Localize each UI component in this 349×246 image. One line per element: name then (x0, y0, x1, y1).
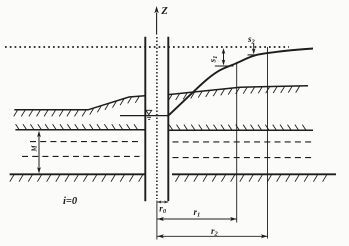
well casing right wall (167, 37, 169, 201)
water table symbol under-ticks (147, 117, 151, 119)
hatch ticks above aquifer top, left (16, 124, 138, 129)
r2 extension line (267, 47, 269, 239)
s1 arrowhead up (222, 48, 226, 54)
flow line (upper dashed) (30, 141, 313, 143)
s1 dimension line (223, 52, 225, 63)
well centerline (vertical dotted) (156, 37, 158, 199)
impermeable base line (10, 173, 336, 175)
water table symbol (nabla) in well (146, 110, 152, 114)
r1 extension line (236, 62, 238, 223)
M dimension arrowhead down (37, 167, 41, 174)
ground surface left of well (14, 96, 145, 110)
r1 dimension line (157, 218, 237, 220)
water level line in well (120, 115, 168, 117)
hatch ticks under left ground surface (14, 97, 139, 117)
r1 arrowhead left (157, 217, 164, 221)
hatch ticks above aquifer top, right (169, 125, 306, 130)
svg-text:Z: Z (160, 6, 168, 17)
initial piezometric surface (horizontal dotted line) (5, 46, 289, 48)
r2 dimension line (157, 235, 268, 237)
Z axis line (156, 13, 158, 35)
r2 arrowhead left (157, 234, 164, 238)
well casing left wall (144, 37, 146, 202)
r0 arrowhead left (157, 201, 161, 204)
svg-text:M: M (31, 145, 39, 153)
svg-text:i=0: i=0 (63, 196, 78, 207)
top of confined aquifer, right part (168, 129, 313, 131)
s2 dimension line (253, 44, 255, 52)
drawdown (piezometric) curve (169, 49, 313, 116)
s1 arrowhead down (222, 60, 226, 66)
hatch ticks under right ground surface (168, 86, 299, 100)
s1 tick at curve (215, 65, 234, 67)
Z axis arrowhead (154, 6, 158, 13)
M dimension arrowhead up (37, 131, 41, 138)
top of confined aquifer, left part (15, 129, 144, 131)
r0 arrowhead right (164, 201, 168, 204)
ground surface right of well (168, 86, 308, 95)
r0 dimension line (157, 201, 168, 203)
r2 arrowhead right (261, 234, 268, 238)
s2 arrowhead down (252, 48, 256, 54)
flow line (lower dashed) (22, 156, 313, 157)
s2 tick at curve (248, 54, 259, 56)
hatch ticks under base line (10, 175, 327, 182)
r1 arrowhead right (230, 217, 237, 221)
well centerline extension (solid thin) (156, 201, 158, 240)
aquifer thickness dimension line M (38, 134, 40, 171)
